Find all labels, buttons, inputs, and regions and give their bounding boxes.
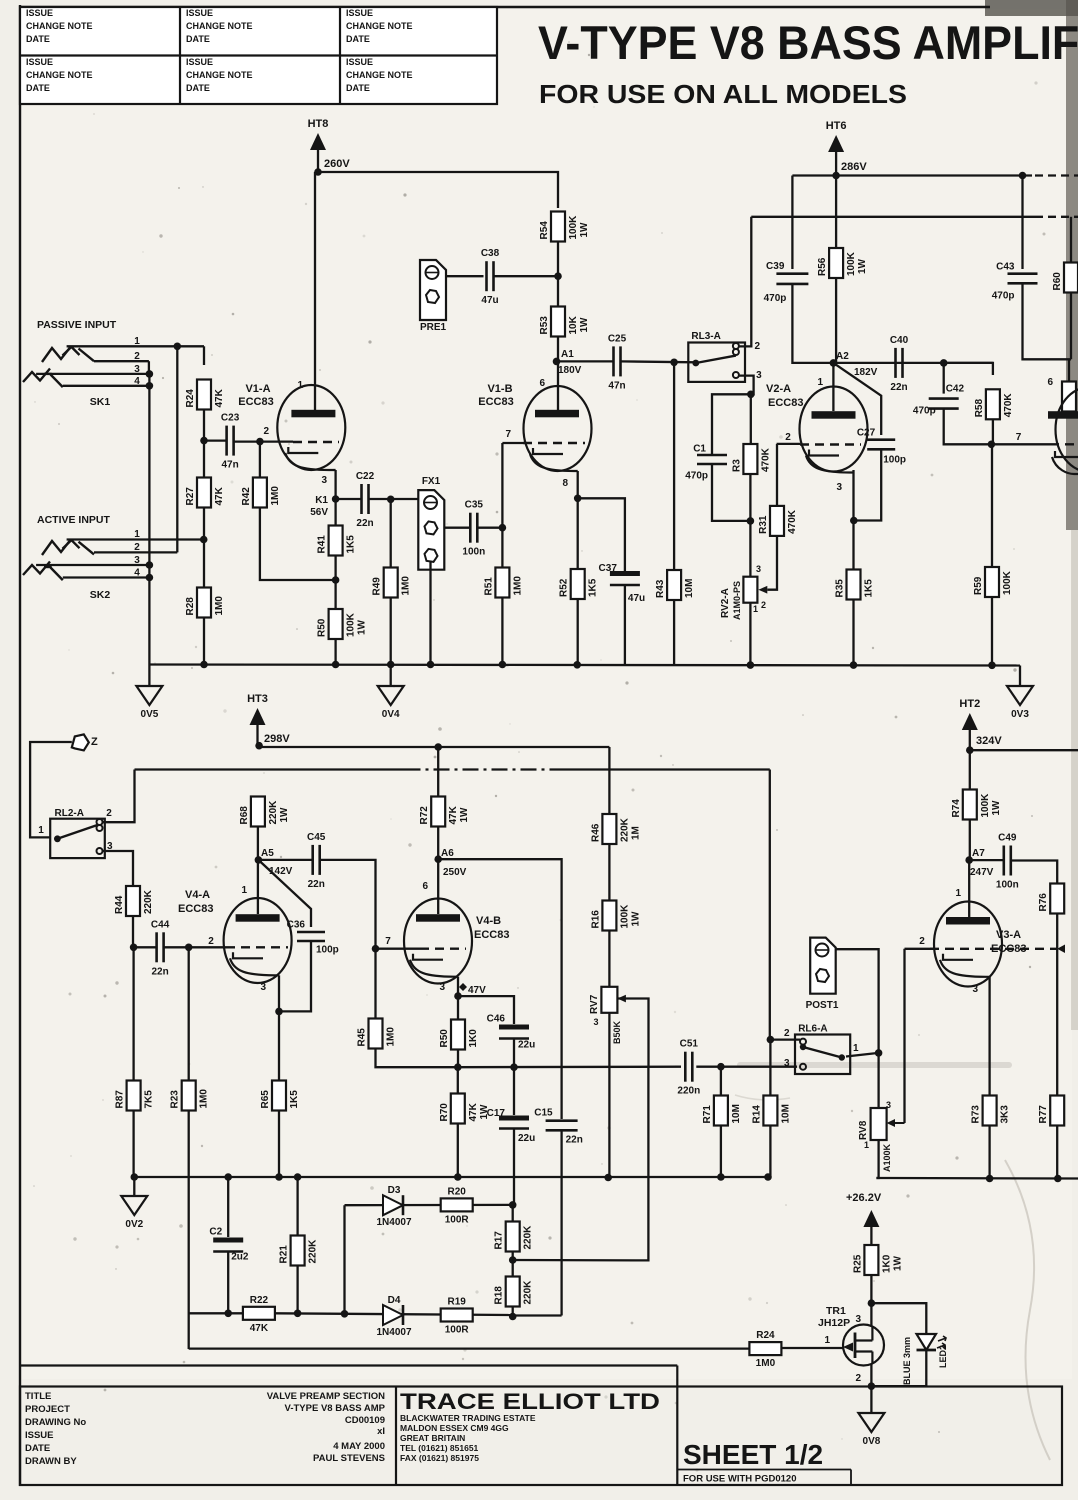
- resistor R23: [170, 1081, 210, 1111]
- wire SK1 pin4: [63, 385, 150, 387]
- svg-text:R43: R43: [655, 579, 666, 598]
- svg-text:100K: 100K: [568, 215, 579, 240]
- capacitor C49: [996, 833, 1019, 891]
- svg-text:V-TYPE V8 BASS AMPLIFIER: V-TYPE V8 BASS AMPLIFIER: [538, 16, 1078, 69]
- wire SK2 pin3: [36, 564, 149, 566]
- svg-text:6: 6: [422, 881, 428, 892]
- junction C2 feedback bus: [224, 1310, 232, 1318]
- svg-text:RV7: RV7: [589, 994, 600, 1014]
- wire RV8 bottom to lower rail: [876, 1140, 878, 1178]
- junction R41 R50 R42: [332, 576, 340, 584]
- junction SK2 pin4: [146, 574, 154, 582]
- wire ground drop DV5: [148, 665, 150, 687]
- svg-text:R73: R73: [971, 1105, 982, 1124]
- wire R60 bottom: [1070, 293, 1072, 360]
- pin 1 SK2: [134, 529, 140, 540]
- wire node to C1 branch: [712, 394, 751, 455]
- svg-text:2: 2: [855, 1373, 861, 1384]
- resistor R31: [758, 506, 798, 536]
- wire SK2 pin4: [63, 576, 150, 578]
- wire SK1 pin2: [94, 360, 149, 362]
- svg-text:A2: A2: [836, 351, 849, 362]
- svg-text:7: 7: [385, 936, 391, 947]
- wire K1 to C22: [336, 498, 362, 500]
- pin 1 RV2-A: [753, 604, 758, 614]
- plate V1-B: [535, 410, 579, 418]
- svg-text:R3: R3: [731, 459, 742, 472]
- svg-text:470K: 470K: [760, 447, 771, 472]
- wire R60 top: [1070, 217, 1072, 263]
- svg-text:7: 7: [1016, 432, 1022, 443]
- resistor R68: [239, 797, 290, 827]
- svg-text:1K5: 1K5: [289, 1090, 300, 1109]
- svg-text:R24: R24: [185, 389, 196, 408]
- svg-text:PAUL STEVENS: PAUL STEVENS: [313, 1453, 385, 1464]
- pin 2 RL6-A: [784, 1028, 790, 1039]
- svg-text:100K: 100K: [1002, 570, 1013, 595]
- svg-text:0V4: 0V4: [382, 709, 400, 720]
- jack POST1: [806, 938, 839, 1011]
- svg-text:22n: 22n: [566, 1135, 583, 1146]
- svg-text:PASSIVE INPUT: PASSIVE INPUT: [37, 319, 117, 331]
- svg-text:220K: 220K: [268, 800, 279, 825]
- wire SK1 pin1: [67, 345, 204, 347]
- wire A1 to C25: [558, 360, 614, 362]
- svg-text:1: 1: [817, 377, 823, 388]
- svg-text:V2-A: V2-A: [766, 383, 791, 395]
- svg-text:PROJECT: PROJECT: [25, 1404, 70, 1415]
- svg-text:DATE: DATE: [346, 83, 370, 93]
- svg-text:R44: R44: [114, 895, 125, 914]
- svg-text:R19: R19: [448, 1297, 467, 1308]
- pin 3 V2-A: [836, 482, 842, 493]
- wire A2 diagonal to C27: [833, 363, 881, 435]
- svg-text:2: 2: [264, 426, 270, 437]
- resistor R58: [974, 389, 1014, 419]
- wire RV7 to lower rail: [608, 1013, 610, 1178]
- resistor R50: [317, 609, 368, 639]
- svg-text:TR1: TR1: [826, 1305, 846, 1317]
- wire R18 bottom: [512, 1306, 514, 1317]
- wire R65 to lower rail: [278, 1110, 280, 1177]
- resistor R25: [852, 1245, 903, 1275]
- label PASSIVE INPUT: [37, 319, 117, 331]
- svg-text:298V: 298V: [264, 733, 290, 745]
- pin 6 V4-B: [422, 881, 428, 892]
- wire RV7 wiper riser: [617, 999, 649, 1067]
- pin 3 RV7: [593, 1017, 598, 1027]
- svg-text:CHANGE NOTE: CHANGE NOTE: [26, 21, 93, 31]
- title block TRACE ELLIOT LTD: [400, 1389, 660, 1463]
- svg-text:C25: C25: [608, 333, 627, 344]
- label K1 56V: [310, 495, 328, 518]
- svg-text:2: 2: [134, 542, 140, 553]
- resistor R51: [483, 568, 523, 598]
- svg-text:RV2-A: RV2-A: [720, 588, 731, 618]
- wire R70 to lower rail: [457, 1123, 459, 1177]
- wire A5 to C45: [258, 859, 312, 861]
- resistor R18: [494, 1277, 534, 1307]
- svg-text:1M0: 1M0: [199, 1089, 210, 1109]
- svg-text:R14: R14: [751, 1105, 762, 1124]
- junction C22 R49 FX1: [387, 496, 395, 504]
- svg-text:R16: R16: [590, 910, 601, 929]
- capacitor C22: [356, 471, 375, 529]
- wire R49 column: [390, 499, 392, 568]
- wire C45 to V4-B grid node: [320, 860, 376, 1019]
- resistor R57: [439, 1020, 479, 1050]
- capacitor C36: [287, 920, 339, 956]
- resistor R53: [539, 307, 590, 337]
- svg-text:3: 3: [855, 1314, 861, 1325]
- power HT2: [959, 698, 1002, 747]
- junction R17 R18: [509, 1256, 517, 1264]
- label A1 180V: [558, 349, 582, 376]
- wire LED2 branch top: [871, 1303, 926, 1335]
- wire HT rail A: [792, 174, 1032, 176]
- pin 1 V4-A: [241, 885, 247, 896]
- junction V1-B cathode node: [574, 495, 582, 503]
- wire V3-A cathode to R73: [988, 977, 990, 1096]
- svg-text:47u: 47u: [628, 593, 645, 604]
- wire R18 node to C15 column: [513, 1314, 562, 1316]
- svg-text:R18: R18: [494, 1286, 505, 1305]
- junction SK2 pin3: [146, 561, 154, 569]
- svg-text:22u: 22u: [518, 1040, 535, 1051]
- wire rail D solid right: [560, 768, 770, 770]
- jack SK1: [23, 346, 110, 408]
- junction C25 R43: [670, 359, 678, 367]
- label ACTIVE INPUT: [37, 514, 111, 526]
- resistor R21: [279, 1236, 319, 1266]
- wire A2 rail corner to R58: [944, 363, 993, 375]
- junction C46 C17 node: [510, 1063, 518, 1071]
- svg-text:220K: 220K: [619, 817, 630, 842]
- contact RL6-A pin1: [839, 1054, 845, 1060]
- wire R57 to C-node: [457, 1049, 459, 1067]
- wire V4-B grid entry: [376, 948, 421, 950]
- title V-TYPE V8 BASS AMPLIFIER: [538, 16, 1078, 69]
- svg-text:10K: 10K: [568, 315, 579, 334]
- resistor R43: [655, 570, 695, 600]
- svg-text:100R: 100R: [445, 1325, 470, 1336]
- wire PRE1 to C38: [446, 275, 484, 277]
- capacitor C43: [992, 262, 1038, 302]
- svg-text:RV8: RV8: [858, 1120, 869, 1140]
- wire R72 to A6: [437, 827, 439, 860]
- svg-text:22n: 22n: [890, 382, 907, 393]
- svg-text:1: 1: [134, 336, 140, 347]
- capacitor C44: [151, 919, 170, 977]
- svg-text:R31: R31: [758, 515, 769, 534]
- contact RL2-A pin3: [97, 848, 103, 854]
- svg-text:BLUE 3mm: BLUE 3mm: [902, 1337, 912, 1385]
- svg-text:R59: R59: [973, 576, 984, 595]
- capacitor C45: [307, 832, 326, 890]
- junction HT8 rail: [314, 168, 322, 176]
- wire rail C corner to R46: [608, 747, 610, 814]
- wire R61 riser: [1068, 359, 1070, 381]
- wire R3 bottom: [749, 474, 751, 521]
- wire feedback bus 2: [275, 1313, 512, 1315]
- junction V4-B cathode node: [454, 992, 462, 1000]
- svg-text:1M0: 1M0: [512, 576, 523, 596]
- svg-text:A6: A6: [441, 848, 454, 859]
- pin 3 SK2: [134, 555, 140, 566]
- cathode V2-A: [806, 450, 854, 473]
- svg-text:C2: C2: [209, 1227, 222, 1238]
- svg-text:2u2: 2u2: [231, 1252, 249, 1263]
- svg-text:HT6: HT6: [826, 120, 847, 132]
- plate V2-A: [812, 411, 856, 419]
- svg-text:HT8: HT8: [308, 118, 329, 130]
- wire cathode node to R57: [457, 996, 459, 1020]
- svg-text:PRE1: PRE1: [420, 322, 447, 333]
- svg-text:100n: 100n: [462, 547, 485, 558]
- svg-text:10M: 10M: [684, 579, 695, 598]
- wire A7 to V3-A plate: [968, 860, 970, 917]
- lever RL6-A: [803, 1047, 842, 1058]
- ground DV4: [378, 686, 404, 720]
- junction D4 branch: [341, 1310, 349, 1318]
- junction R21 feedback bus: [294, 1310, 302, 1318]
- junction TR1 drain LED: [868, 1299, 876, 1307]
- pin 6 V2-B: [1047, 377, 1053, 388]
- wire V1-B cathode drop: [577, 471, 579, 498]
- resistor R74: [951, 790, 1002, 820]
- svg-text:47K: 47K: [250, 1323, 269, 1334]
- jack PRE1: [420, 260, 447, 333]
- lever RL3-A: [696, 356, 736, 363]
- relay RL3-A: [688, 331, 745, 382]
- svg-text:56V: 56V: [310, 507, 328, 518]
- label A6 250V: [441, 848, 467, 878]
- svg-text:1K5: 1K5: [864, 579, 875, 598]
- capacitor C38: [481, 248, 500, 306]
- jack FX1: [418, 476, 444, 570]
- svg-text:R74: R74: [951, 799, 962, 818]
- svg-text:DATE: DATE: [186, 34, 210, 44]
- resistor R77: [1038, 1096, 1064, 1126]
- valve V1-A envelope: [277, 385, 345, 470]
- wire send bus: [458, 1066, 681, 1069]
- wire R17 to R18: [512, 1251, 514, 1277]
- svg-text:1: 1: [955, 888, 961, 899]
- svg-text:HT2: HT2: [959, 698, 980, 710]
- svg-text:TRACE ELLIOT LTD: TRACE ELLIOT LTD: [400, 1389, 660, 1414]
- wire A5 to V4-A plate: [257, 860, 259, 914]
- junction HT3 rail: [255, 742, 263, 750]
- wire RV2 top: [749, 521, 751, 576]
- wire LED2 branch bottom: [871, 1349, 926, 1386]
- svg-text:R70: R70: [439, 1103, 450, 1122]
- wire C23 to V1-A grid: [233, 440, 293, 442]
- wire rail A corner to C39: [791, 176, 793, 270]
- svg-text:DATE: DATE: [186, 83, 210, 93]
- svg-text:1W: 1W: [579, 222, 590, 238]
- wire R58 to grid node: [992, 419, 994, 444]
- pin 3 RV8: [886, 1100, 891, 1110]
- svg-text:C46: C46: [487, 1014, 506, 1025]
- resistor R52: [559, 569, 599, 599]
- capacitor C2: [209, 1227, 248, 1263]
- svg-text:1M: 1M: [630, 826, 641, 840]
- capacitor C40: [890, 335, 909, 393]
- capacitor C17: [487, 1108, 536, 1144]
- svg-text:A7: A7: [972, 848, 985, 859]
- label A2 182V: [836, 351, 878, 378]
- capacitor C37: [599, 563, 646, 604]
- svg-text:R58: R58: [974, 399, 985, 418]
- svg-text:+26.2V: +26.2V: [846, 1192, 882, 1204]
- svg-text:Z: Z: [91, 736, 98, 748]
- svg-text:4: 4: [134, 376, 140, 387]
- svg-text:C37: C37: [599, 563, 618, 574]
- svg-text:A1M0-PS: A1M0-PS: [732, 581, 742, 620]
- svg-text:LED2: LED2: [938, 1345, 948, 1368]
- svg-text:1: 1: [864, 1140, 869, 1150]
- svg-text:BLACKWATER TRADING ESTATE: BLACKWATER TRADING ESTATE: [400, 1413, 536, 1423]
- wire V1-A cathode to K1: [333, 470, 336, 499]
- svg-text:1K5: 1K5: [346, 535, 357, 554]
- svg-text:47K: 47K: [214, 486, 225, 505]
- wire C42 to grid wire: [944, 409, 992, 445]
- resistor R19: [441, 1297, 473, 1336]
- svg-text:470p: 470p: [913, 406, 936, 417]
- wire C49 to R76: [1012, 861, 1058, 885]
- resistor R20: [441, 1186, 473, 1225]
- wire R21 bottom: [296, 1265, 298, 1313]
- svg-text:R51: R51: [483, 577, 494, 596]
- svg-text:47K: 47K: [448, 805, 459, 824]
- title block left labels: [25, 1391, 86, 1467]
- valve V4-B envelope: [404, 899, 472, 984]
- ground DV8: [858, 1413, 884, 1447]
- capacitor C25: [608, 333, 627, 391]
- wire R24 column top: [203, 346, 205, 365]
- svg-text:ECC83: ECC83: [474, 929, 509, 941]
- junction V4-A cathode node: [275, 1008, 283, 1016]
- svg-text:1: 1: [753, 604, 758, 614]
- wire V1-B grid column: [501, 443, 503, 568]
- svg-text:D3: D3: [388, 1185, 401, 1196]
- wire V3-A grid entry: [905, 948, 935, 950]
- resistor R3: [731, 444, 771, 474]
- wire RL2 pin3 to R44: [103, 851, 134, 888]
- svg-text:2: 2: [208, 936, 214, 947]
- wire R53 to A1: [557, 337, 559, 411]
- junction HT2 rail: [966, 746, 974, 754]
- svg-text:100n: 100n: [996, 880, 1019, 891]
- lever RL2-A: [57, 825, 98, 839]
- svg-text:2: 2: [134, 351, 140, 362]
- resistor R24: [749, 1330, 781, 1369]
- capacitor C1: [685, 444, 727, 482]
- wire C25 to RL3 pin1: [620, 360, 695, 363]
- svg-text:ISSUE: ISSUE: [186, 57, 213, 67]
- junction lower rail R21: [294, 1173, 302, 1181]
- svg-text:DATE: DATE: [346, 34, 370, 44]
- label 47V: [459, 983, 486, 996]
- svg-text:470p: 470p: [764, 293, 787, 304]
- junction RL6 pin1 node: [875, 1049, 883, 1057]
- svg-text:ECC83: ECC83: [991, 943, 1026, 955]
- svg-text:C39: C39: [766, 261, 785, 272]
- junction R18 R19: [509, 1313, 517, 1321]
- svg-text:C23: C23: [221, 413, 240, 424]
- svg-text:V4-A: V4-A: [185, 889, 210, 901]
- wire C44 left: [134, 946, 157, 948]
- label V1-A: [238, 383, 273, 408]
- pin 3 RV2-A: [756, 564, 761, 574]
- grid V3-A: [930, 948, 1057, 950]
- pin 6 V1-B: [539, 378, 545, 389]
- svg-text:ISSUE: ISSUE: [346, 57, 373, 67]
- wire V4-B cathode drop: [457, 977, 459, 996]
- potentiometer RV7: [589, 987, 622, 1044]
- svg-text:470K: 470K: [1003, 393, 1014, 418]
- wire C35 to R51 node: [477, 527, 502, 529]
- wire C2 bottom: [227, 1252, 229, 1314]
- wire R42 bottom to cathode node: [260, 508, 336, 581]
- junction rail R51: [499, 661, 507, 669]
- svg-text:3: 3: [756, 564, 761, 574]
- junction V4-B grid node: [372, 945, 380, 953]
- svg-text:22n: 22n: [356, 518, 373, 529]
- resistor R17: [494, 1222, 534, 1252]
- grid V4-B: [420, 948, 466, 950]
- power HT3: [247, 693, 290, 745]
- junction rail R50: [332, 661, 340, 669]
- svg-text:A5: A5: [261, 848, 274, 859]
- svg-text:6: 6: [539, 378, 545, 389]
- wire POST column to R14: [769, 940, 771, 1040]
- resistor R60: [1052, 263, 1078, 293]
- junction rail R35: [850, 661, 858, 669]
- svg-text:DATE: DATE: [25, 1443, 50, 1454]
- cathode V2-B: [1052, 451, 1078, 474]
- wire ground drop DV2: [133, 1177, 135, 1196]
- wire C15 column: [560, 1114, 562, 1119]
- svg-text:V-TYPE V8 BASS AMP: V-TYPE V8 BASS AMP: [285, 1403, 386, 1414]
- svg-text:CHANGE NOTE: CHANGE NOTE: [186, 70, 253, 80]
- pin 8 V1-B: [562, 478, 568, 489]
- svg-text:R76: R76: [1038, 893, 1049, 912]
- svg-text:V3-A: V3-A: [996, 929, 1021, 941]
- plate V1-A: [291, 410, 335, 418]
- wire ground drop DV3: [1019, 666, 1021, 687]
- svg-text:FAX (01621) 851975: FAX (01621) 851975: [400, 1453, 479, 1463]
- wire C15 to R19 node: [560, 1131, 562, 1316]
- node A2: [830, 359, 838, 367]
- node A5: [255, 856, 263, 864]
- svg-text:R17: R17: [494, 1231, 505, 1250]
- node K1: [332, 495, 340, 503]
- wire D3 row: [345, 1204, 512, 1207]
- svg-text:3: 3: [321, 475, 327, 486]
- svg-text:250V: 250V: [443, 867, 467, 878]
- svg-text:1W: 1W: [991, 800, 1002, 816]
- potentiometer RV2-A: [720, 577, 757, 620]
- resistor R24: [185, 380, 225, 410]
- junction V1-A grid node: [256, 438, 264, 446]
- label V4-B: [474, 915, 509, 941]
- wire V3-A grid arrow: [1057, 945, 1065, 954]
- svg-text:A1: A1: [561, 349, 574, 360]
- wire SK2 pin2: [94, 551, 177, 553]
- valve V4-A envelope: [224, 898, 292, 983]
- wire R68 to A5: [257, 827, 259, 860]
